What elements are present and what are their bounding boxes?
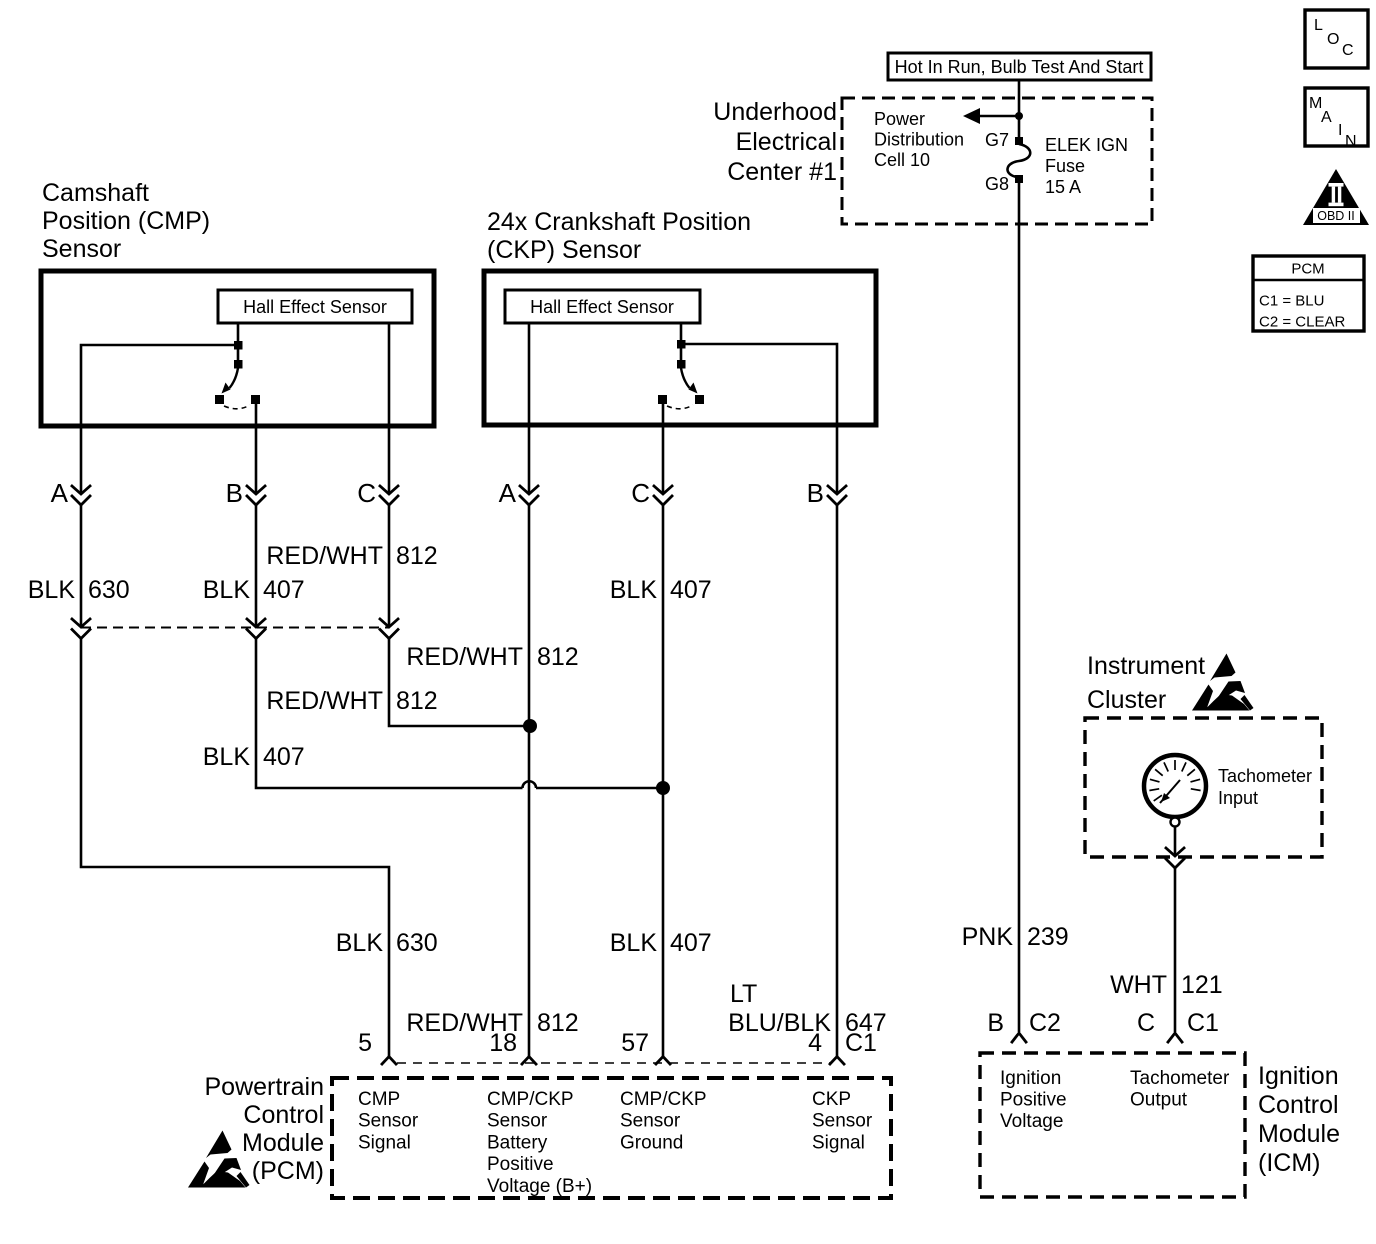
svg-text:I: I <box>1338 122 1342 139</box>
legend box LOC <box>1305 10 1368 68</box>
wire BLK 407 pin B <box>255 505 258 627</box>
needle <box>1160 780 1180 803</box>
inline connector row <box>72 619 398 639</box>
svg-text:Sensor: Sensor <box>42 235 121 263</box>
svg-text:Camshaft: Camshaft <box>42 179 149 207</box>
svg-text:CMP: CMP <box>358 1089 400 1110</box>
svg-text:C2: C2 <box>1029 1009 1061 1037</box>
svg-text:G7: G7 <box>985 130 1009 150</box>
wire node to pin B <box>683 344 837 494</box>
svg-text:Voltage: Voltage <box>1000 1111 1063 1132</box>
svg-text:Hot In Run, Bulb Test And Star: Hot In Run, Bulb Test And Start <box>895 57 1144 77</box>
svg-text:Signal: Signal <box>812 1132 865 1153</box>
svg-text:812: 812 <box>537 643 579 671</box>
junction BLK 407 <box>656 781 670 795</box>
svg-text:4: 4 <box>808 1029 822 1057</box>
svg-text:(PCM): (PCM) <box>252 1157 324 1185</box>
svg-text:812: 812 <box>396 687 438 715</box>
svg-text:407: 407 <box>263 743 305 771</box>
switch contact <box>658 395 667 404</box>
wire ignition positive voltage <box>1018 183 1021 1032</box>
ESD symbol instrument cluster <box>1192 654 1254 711</box>
switch contact <box>215 395 224 404</box>
svg-text:BLK: BLK <box>203 576 251 604</box>
wire LT BLU/BLK 647 CKP B <box>836 505 839 1056</box>
ESD symbol PCM <box>188 1131 250 1188</box>
svg-text:24x Crankshaft Position: 24x Crankshaft Position <box>487 208 751 236</box>
switch contact <box>695 395 704 404</box>
CMP sensor box <box>41 271 434 426</box>
fuse ELEK IGN 15A <box>1007 144 1030 177</box>
svg-text:15 A: 15 A <box>1045 177 1081 197</box>
svg-text:A: A <box>499 478 517 508</box>
svg-text:C1 = BLU: C1 = BLU <box>1259 293 1324 310</box>
wire A down and over to PCM pin 5 <box>81 639 389 1057</box>
svg-text:Tachometer: Tachometer <box>1218 766 1312 786</box>
CKP hall effect sensor box <box>505 290 700 323</box>
svg-text:Ignition: Ignition <box>1258 1062 1339 1090</box>
label Underhood Electrical Center #1 <box>713 98 837 186</box>
wire hall to pin C <box>388 323 391 494</box>
arrow to power distribution <box>978 115 1019 118</box>
PCM pin terminals <box>382 1057 844 1065</box>
svg-text:Positive: Positive <box>487 1154 554 1175</box>
svg-text:A: A <box>1321 109 1332 126</box>
svg-text:Control: Control <box>243 1101 324 1129</box>
svg-text:Electrical: Electrical <box>736 128 837 156</box>
wire C down and over to CKP A junction <box>389 639 530 727</box>
wire contact to pin C <box>662 404 665 494</box>
pin B CKP <box>807 478 846 508</box>
svg-text:WHT: WHT <box>1110 971 1167 999</box>
hot in run label box <box>888 53 1151 80</box>
svg-text:PNK: PNK <box>962 923 1014 951</box>
CKP switch arm <box>681 368 690 388</box>
CMP switch arm <box>230 368 239 388</box>
svg-text:Sensor: Sensor <box>358 1111 419 1132</box>
underhood electrical center dashed box <box>842 98 1152 224</box>
svg-text:C1: C1 <box>845 1029 877 1057</box>
svg-text:Instrument: Instrument <box>1087 652 1205 680</box>
label Camshaft Position (CMP) Sensor <box>42 179 210 263</box>
junction node on B+ feed <box>1015 112 1023 120</box>
svg-text:A: A <box>51 478 69 508</box>
svg-text:Battery: Battery <box>487 1132 548 1153</box>
svg-text:Fuse: Fuse <box>1045 156 1085 176</box>
svg-text:BLK: BLK <box>610 929 658 957</box>
svg-text:BLK: BLK <box>28 576 76 604</box>
svg-text:C: C <box>357 478 376 508</box>
svg-text:C: C <box>631 478 650 508</box>
svg-text:Positive: Positive <box>1000 1090 1067 1111</box>
svg-text:B: B <box>807 478 824 508</box>
wire hall to pin A <box>528 323 531 494</box>
svg-text:Powertrain: Powertrain <box>205 1073 325 1101</box>
svg-text:Power: Power <box>874 109 925 129</box>
gauge stem <box>1171 818 1180 827</box>
svg-text:Input: Input <box>1218 788 1258 808</box>
svg-text:C1: C1 <box>1187 1009 1219 1037</box>
wire hall to switch node <box>680 323 683 362</box>
pin A CKP <box>499 478 538 508</box>
svg-text:Sensor: Sensor <box>620 1111 681 1132</box>
wire node to pin A <box>81 345 236 494</box>
wire RED/WHT 812 pin C <box>388 505 391 627</box>
svg-text:812: 812 <box>396 542 438 570</box>
switch contact <box>251 395 260 404</box>
label Powertrain Control Module (PCM) <box>205 1073 325 1185</box>
node <box>677 360 686 369</box>
dashed link <box>667 405 693 409</box>
svg-text:630: 630 <box>88 576 130 604</box>
svg-text:CMP/CKP: CMP/CKP <box>487 1089 574 1110</box>
terminal G8 <box>1015 175 1023 183</box>
svg-text:(CKP) Sensor: (CKP) Sensor <box>487 236 641 264</box>
svg-text:Tachometer: Tachometer <box>1130 1068 1230 1089</box>
wire RED/WHT 812 CKP A <box>528 505 531 1056</box>
ICM pin function labels <box>1000 1068 1230 1132</box>
label ELEK IGN Fuse 15 A <box>1045 135 1128 197</box>
dashed link <box>224 405 250 409</box>
svg-text:RED/WHT: RED/WHT <box>266 542 383 570</box>
PCM connector dashed line <box>397 1062 830 1064</box>
svg-text:Cluster: Cluster <box>1087 686 1166 714</box>
svg-text:N: N <box>1345 133 1357 150</box>
ICM dashed box <box>980 1053 1245 1197</box>
node <box>677 340 686 349</box>
svg-text:407: 407 <box>263 576 305 604</box>
CMP hall effect sensor box <box>218 290 412 323</box>
svg-text:OBD II: OBD II <box>1317 209 1355 223</box>
svg-text:Cell 10: Cell 10 <box>874 150 930 170</box>
svg-text:RED/WHT: RED/WHT <box>266 687 383 715</box>
pin A CMP <box>51 478 90 508</box>
svg-text:Ignition: Ignition <box>1000 1068 1061 1089</box>
svg-text:PCM: PCM <box>1291 261 1324 278</box>
svg-text:BLK: BLK <box>203 743 251 771</box>
label Ignition Control Module (ICM) <box>1258 1062 1340 1177</box>
svg-text:Ground: Ground <box>620 1132 683 1153</box>
svg-text:Distribution: Distribution <box>874 130 964 150</box>
svg-text:630: 630 <box>396 929 438 957</box>
tachometer gauge <box>1144 755 1206 827</box>
wire hop over CKP A <box>523 781 537 788</box>
wire BLK 630 pin A <box>80 505 83 627</box>
svg-text:Center #1: Center #1 <box>727 158 837 186</box>
svg-text:BLK: BLK <box>336 929 384 957</box>
svg-text:C: C <box>1137 1009 1155 1037</box>
svg-text:BLK: BLK <box>610 576 658 604</box>
svg-text:407: 407 <box>670 929 712 957</box>
wire hall to switch node <box>237 323 240 362</box>
wire BLK 407 CKP C <box>662 505 665 1056</box>
svg-text:C2 = CLEAR: C2 = CLEAR <box>1259 314 1345 331</box>
pin B CMP <box>226 478 265 508</box>
svg-text:B: B <box>226 478 243 508</box>
svg-text:Output: Output <box>1130 1090 1188 1111</box>
wire tachometer output <box>1174 827 1177 856</box>
instrument cluster dashed box <box>1085 718 1322 857</box>
legend box MAIN <box>1305 88 1368 150</box>
svg-text:Hall Effect Sensor: Hall Effect Sensor <box>530 297 674 317</box>
svg-text:LT: LT <box>730 980 757 1008</box>
svg-text:Position (CMP): Position (CMP) <box>42 207 210 235</box>
CKP sensor box <box>484 271 876 425</box>
pin C CMP <box>357 478 398 508</box>
svg-text:L: L <box>1314 17 1323 34</box>
svg-text:239: 239 <box>1027 923 1069 951</box>
svg-text:Underhood: Underhood <box>713 98 837 126</box>
PCM dashed box <box>332 1078 891 1198</box>
terminal G7 <box>1015 137 1023 145</box>
label Power Distribution Cell 10 <box>874 109 964 170</box>
wire from hot-in-run into fuse G7 <box>1018 80 1021 137</box>
svg-text:407: 407 <box>670 576 712 604</box>
svg-text:Hall Effect Sensor: Hall Effect Sensor <box>243 297 387 317</box>
ICM pin terminals <box>1012 1033 1182 1042</box>
svg-text:CMP/CKP: CMP/CKP <box>620 1089 707 1110</box>
svg-text:ELEK IGN: ELEK IGN <box>1045 135 1128 155</box>
svg-text:Voltage (B+): Voltage (B+) <box>487 1176 592 1197</box>
wire contact to pin B <box>255 404 258 494</box>
svg-text:CKP: CKP <box>812 1089 851 1110</box>
connector dashed line <box>81 627 389 629</box>
svg-text:Signal: Signal <box>358 1132 411 1153</box>
svg-text:812: 812 <box>537 1009 579 1037</box>
svg-text:18: 18 <box>489 1029 517 1057</box>
OBD II symbol <box>1303 169 1369 225</box>
node <box>234 360 243 369</box>
svg-text:C: C <box>1342 42 1354 59</box>
legend box PCM connectors <box>1253 256 1364 331</box>
junction RED/WHT 812 <box>523 719 537 733</box>
wire B down and over to CKP C junction <box>256 639 523 789</box>
svg-text:121: 121 <box>1181 971 1223 999</box>
svg-text:Sensor: Sensor <box>487 1111 548 1132</box>
svg-text:B: B <box>987 1009 1004 1037</box>
PCM pin function labels <box>358 1089 873 1197</box>
svg-text:57: 57 <box>621 1029 649 1057</box>
node <box>234 341 243 350</box>
svg-text:Module: Module <box>242 1129 324 1157</box>
svg-text:RED/WHT: RED/WHT <box>406 643 523 671</box>
svg-text:Control: Control <box>1258 1091 1339 1119</box>
svg-text:O: O <box>1327 31 1339 48</box>
pin C CKP <box>631 478 672 508</box>
label 24x Crankshaft Position (CKP) Sensor <box>487 208 751 264</box>
svg-text:(ICM): (ICM) <box>1258 1149 1320 1177</box>
svg-text:Sensor: Sensor <box>812 1111 873 1132</box>
svg-text:G8: G8 <box>985 174 1009 194</box>
svg-text:Module: Module <box>1258 1120 1340 1148</box>
svg-text:5: 5 <box>358 1029 372 1057</box>
